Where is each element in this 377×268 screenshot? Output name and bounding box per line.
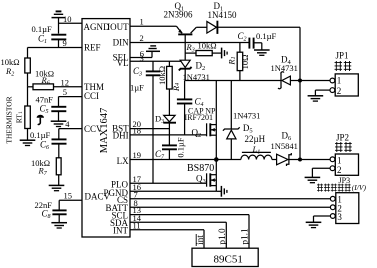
wire top rail [196, 26, 300, 28]
wire AGND pin 10 [59, 14, 83, 24]
svg-text:18: 18 [133, 126, 142, 136]
wire PLO pin 17 [130, 174, 207, 184]
diode D3 [155, 113, 176, 144]
inductor L1 22uH [216, 134, 276, 159]
svg-text:2: 2 [337, 86, 342, 96]
wire INT pin 11 [130, 220, 204, 248]
thermistor RT1 [4, 87, 30, 144]
resistor R1 10ohm [227, 43, 251, 81]
wire rail VH [185, 80, 281, 82]
label int [196, 234, 206, 246]
wire JP3 pin3 to ground [314, 216, 331, 222]
svg-text:0.1µF: 0.1µF [175, 137, 185, 158]
ground (below JP3) [306, 222, 322, 227]
wire CCV pin 4 [59, 128, 82, 130]
resistor R7 10k [31, 158, 61, 186]
wire IOUT pin 1 [130, 17, 177, 27]
wire BST pin 20 [130, 119, 169, 129]
svg-text:1: 1 [337, 76, 342, 86]
ground (below C5) [51, 119, 70, 129]
ground (above C1, inverted) [52, 11, 66, 33]
wire SDA pin 14 [130, 213, 226, 248]
svg-text:1N4731: 1N4731 [233, 111, 260, 121]
svg-text:p1.1: p1.1 [241, 228, 251, 245]
schottky D6 1N5841 [271, 131, 301, 166]
svg-text:BS870: BS870 [187, 163, 214, 174]
wire DIN pin 2 [130, 33, 249, 43]
wire BATT pin 8 [130, 198, 330, 208]
resistor R2 10k [1, 48, 31, 87]
connector JP3 [317, 176, 366, 223]
wire SCL pin 13 [130, 205, 249, 248]
ground (below C2) [254, 50, 270, 55]
svg-text:LX: LX [117, 156, 129, 166]
capacitor C2 0.1uF [238, 31, 277, 50]
svg-text:REF: REF [84, 43, 101, 53]
svg-text:JP2: JP2 [336, 133, 349, 143]
label IRF7201 [185, 113, 213, 122]
capacitor C8 22nF [35, 200, 67, 223]
svg-text:INT: INT [113, 226, 128, 236]
IC U2 89C51 [192, 248, 258, 266]
ground (below RT1) [20, 140, 36, 145]
svg-text:3: 3 [337, 212, 342, 222]
ground (SEL pin 6, inverted) [130, 46, 160, 59]
svg-text:IRF7201: IRF7201 [185, 113, 213, 122]
wire right vertical rail [298, 27, 302, 161]
svg-text:1µF: 1µF [130, 83, 144, 93]
wire CS pin 7 [130, 189, 330, 199]
resistor R6 10k [33, 69, 54, 90]
IC U1 MAX1647 [82, 19, 130, 237]
svg-text:89C51: 89C51 [214, 254, 243, 266]
svg-text:1N5841: 1N5841 [271, 141, 298, 151]
ground (below JP1) [308, 96, 324, 101]
zener D5 1N4731 [223, 81, 260, 160]
svg-text:10kΩ: 10kΩ [198, 41, 217, 51]
svg-text:VL: VL [117, 58, 129, 68]
svg-text:(I/V): (I/V) [352, 183, 367, 192]
svg-text:3: 3 [140, 53, 144, 63]
svg-text:IOUT: IOUT [107, 22, 129, 32]
ground (below C8) [51, 223, 67, 228]
svg-text:JP1: JP1 [336, 50, 349, 60]
capacitor C4 CAP NP [177, 81, 216, 135]
svg-text:10: 10 [63, 14, 72, 24]
transistor Q1 2N3906 [164, 1, 197, 60]
svg-text:1: 1 [337, 155, 342, 165]
capacitor C3 1uF [130, 61, 160, 92]
capacitor C6 0.1uF [30, 129, 67, 158]
node LX junction [214, 157, 219, 162]
svg-text:15: 15 [64, 191, 73, 201]
wire DACV pin 15 [59, 191, 82, 201]
svg-text:10Ω: 10Ω [240, 55, 250, 70]
svg-text:JP3: JP3 [339, 176, 351, 185]
wire CCI pin 5 [59, 87, 83, 97]
label p1.0 [218, 228, 228, 245]
svg-text:2: 2 [140, 33, 144, 43]
ground (below R7) [49, 185, 65, 190]
ground (right of R3, sideways) [222, 48, 228, 59]
connector JP1 [330, 50, 358, 96]
wire JP2 pin2 to ground [312, 168, 330, 177]
wire Q2 rail [215, 81, 217, 192]
svg-text:0.1µF: 0.1µF [256, 31, 277, 41]
svg-text:CCI: CCI [84, 91, 99, 101]
connector JP2 [330, 133, 358, 176]
wire DHI pin 18 [130, 126, 207, 136]
wire JP1 pin2 to ground [315, 90, 330, 96]
zener D2 1N4731 [179, 60, 210, 82]
capacitor C1 0.1uF [32, 24, 67, 48]
resistor R4 10k [157, 61, 182, 115]
diode D1 1N4150 [207, 1, 237, 34]
capacitor C7 0.1uF [155, 137, 185, 161]
svg-text:12: 12 [61, 77, 70, 87]
svg-text:9: 9 [63, 38, 67, 48]
label p1.1 [241, 228, 251, 245]
wire LX pin 19 [130, 150, 216, 160]
svg-text:4: 4 [65, 119, 70, 129]
ground (below JP2) [305, 177, 321, 182]
svg-text:10kΩ: 10kΩ [157, 66, 167, 85]
svg-text:DHI: DHI [113, 130, 129, 140]
wire REF pin 9 [28, 38, 83, 48]
svg-text:1N4150: 1N4150 [208, 10, 237, 20]
svg-text:22µH: 22µH [245, 134, 266, 144]
svg-text:2N3906: 2N3906 [164, 9, 193, 19]
svg-text:11: 11 [133, 220, 141, 230]
svg-text:1N4731: 1N4731 [271, 63, 298, 73]
wire PGND pin 16 [130, 182, 221, 192]
capacitor C5 47nF [36, 94, 67, 121]
svg-text:2: 2 [337, 165, 342, 175]
polarity mark near C5 [37, 115, 44, 125]
resistor R3 10k [185, 41, 221, 56]
ground (right of Q3, sideways) [221, 186, 227, 197]
svg-text:CCV: CCV [84, 124, 103, 134]
svg-text:p1.0: p1.0 [218, 228, 228, 245]
svg-text:5: 5 [63, 87, 67, 97]
svg-text:AGND: AGND [84, 22, 110, 32]
svg-text:THERMISTOR: THERMISTOR [4, 96, 13, 143]
wire THM pin 12 [28, 77, 83, 87]
svg-text:0.1µF: 0.1µF [32, 24, 53, 34]
svg-text:DIN: DIN [113, 38, 129, 48]
wire C3 column down to PLO [152, 75, 154, 183]
MOSFET Q3 BS870 [187, 163, 216, 187]
svg-text:19: 19 [133, 150, 142, 160]
wire JP2 pin1 [300, 159, 330, 161]
svg-text:int: int [196, 235, 206, 245]
MOSFET Q2 IRF7201 [192, 123, 217, 139]
wire VL pin 3 [130, 53, 185, 63]
zener D4 1N4731 [271, 54, 331, 88]
svg-text:1: 1 [140, 17, 144, 27]
